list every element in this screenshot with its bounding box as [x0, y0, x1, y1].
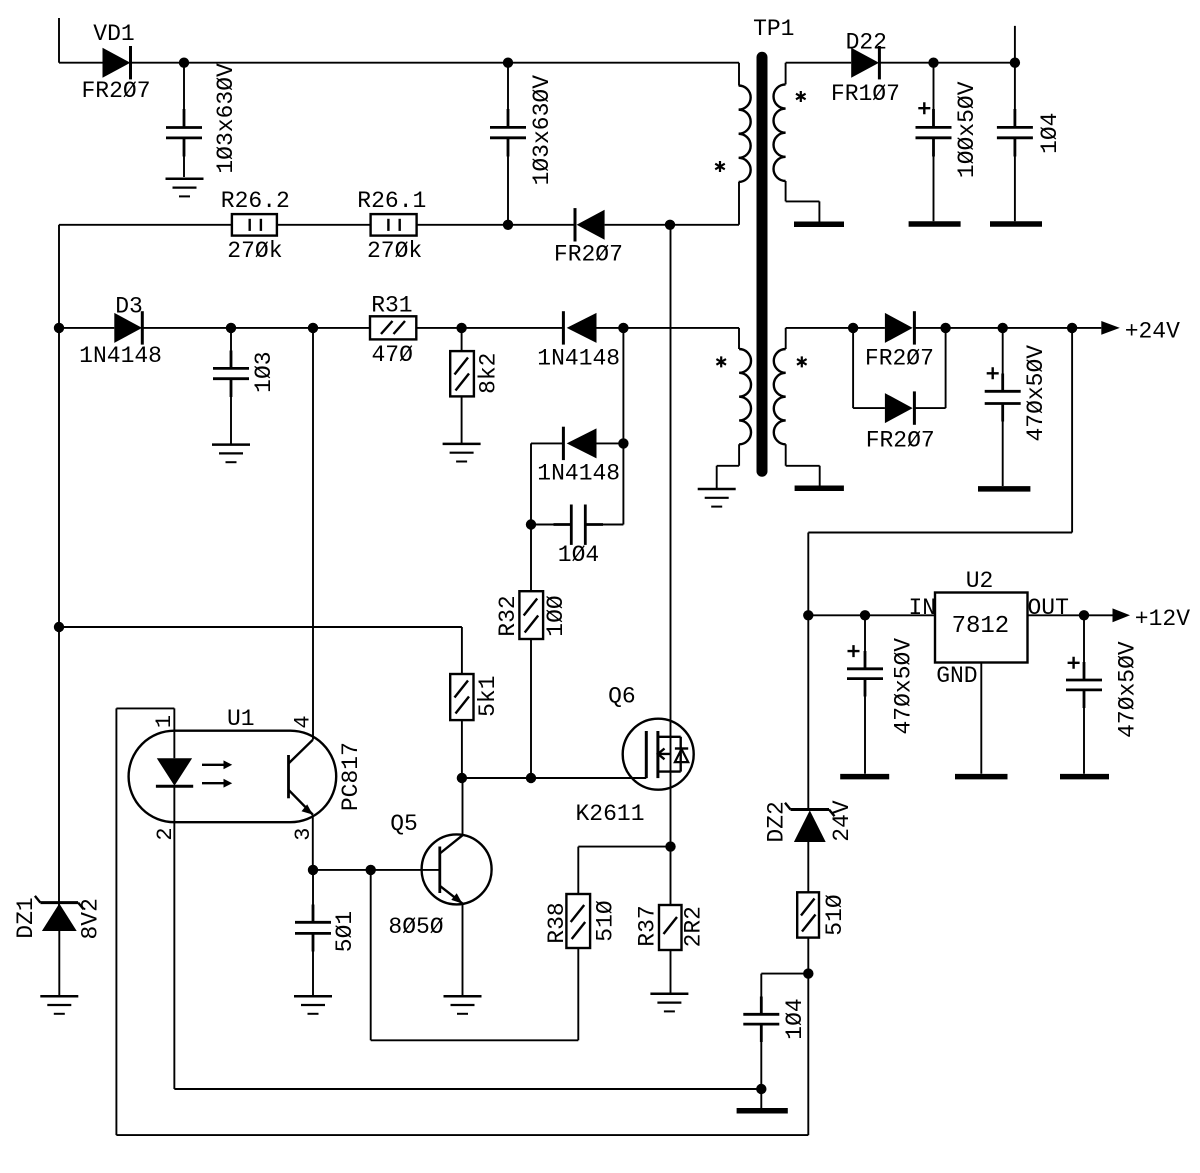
node pin3 junction: [308, 865, 318, 875]
wire D22 rail: [786, 26, 1015, 63]
resistor R37 2R2: [634, 847, 706, 994]
wire bias y627: [59, 627, 462, 674]
svg-text:47Øx5ØV: 47Øx5ØV: [1023, 345, 1049, 442]
svg-text:K2611: K2611: [575, 801, 644, 827]
node snubber junction rail C: [618, 323, 628, 333]
wire rail B: [59, 182, 739, 225]
ground 470x50V output: [978, 486, 1030, 492]
ground R37: [650, 994, 688, 1012]
node +12V feed junction: [1067, 323, 1077, 333]
node 8k2 junction: [456, 323, 466, 333]
svg-text:1Ø3x63ØV: 1Ø3x63ØV: [213, 63, 239, 174]
diode D22 FR107: [831, 30, 900, 107]
svg-text:27Øk: 27Øk: [367, 238, 422, 264]
svg-text:DZ2: DZ2: [763, 801, 789, 842]
svg-text:51Ø: 51Ø: [593, 900, 619, 942]
capacitor 103: [213, 328, 277, 444]
diode FR207 output 1: [865, 311, 934, 372]
node left bus rail C: [54, 323, 64, 333]
svg-text:4: 4: [290, 715, 315, 728]
svg-text:1Ø4: 1Ø4: [782, 998, 808, 1039]
ground 104 bottom: [737, 1108, 788, 1114]
ground 104 top: [990, 221, 1042, 227]
transformer TP1 secondary top winding: [774, 63, 820, 222]
node FR207 left junction: [848, 323, 858, 333]
node primary bottom junction: [665, 220, 675, 230]
node 470x50V junction: [998, 323, 1008, 333]
node B junction: [503, 58, 513, 68]
svg-text:1Ø4: 1Ø4: [1037, 112, 1063, 153]
node snubber diode junction: [618, 438, 628, 448]
wire IN rail: [808, 614, 935, 616]
ground 501: [294, 996, 332, 1014]
svg-text:7812: 7812: [952, 613, 1010, 640]
ground secondary top: [794, 221, 844, 227]
ground 100x50V: [909, 221, 961, 227]
transformer TP1 core: [753, 16, 794, 471]
svg-text:FR2Ø7: FR2Ø7: [81, 78, 150, 104]
svg-text:5k1: 5k1: [475, 675, 501, 716]
U1 phototransistor: [289, 740, 313, 815]
resistor 5k1: [450, 674, 501, 778]
wire pin4 riser: [312, 328, 314, 740]
polarity dot secondary top: [796, 91, 806, 102]
node Q6 source junction: [665, 841, 675, 851]
transformer TP1 primary bottom winding: [717, 349, 751, 488]
capacitor 501: [295, 870, 358, 996]
wire U1 pin1 route: [116, 708, 808, 1135]
svg-text:D3: D3: [115, 294, 143, 320]
regulator U2 7812: [908, 568, 1068, 689]
svg-text:1Ø3x63ØV: 1Ø3x63ØV: [529, 75, 555, 186]
zener DZ1 8V2: [13, 896, 103, 996]
svg-text:+12V: +12V: [1135, 606, 1190, 632]
ground Q5 emitter: [444, 996, 482, 1014]
ground 103: [212, 445, 250, 463]
svg-text:51Ø: 51Ø: [822, 894, 848, 936]
node 104 junction: [526, 519, 536, 529]
svg-text:IN: IN: [908, 595, 936, 621]
svg-text:1: 1: [152, 715, 177, 728]
resistor R31 470: [370, 293, 416, 368]
node R38 base junction: [366, 865, 376, 875]
node 104 bottom junction: [803, 968, 813, 978]
svg-text:PC817: PC817: [338, 742, 364, 811]
wire gate line y778: [462, 777, 646, 779]
svg-text:R32: R32: [495, 595, 521, 636]
wire ground stub: [760, 1089, 762, 1108]
node pin4 junction rail C: [308, 323, 318, 333]
wire left bus x59: [58, 225, 60, 903]
svg-text:8k2: 8k2: [476, 352, 502, 393]
svg-text:GND: GND: [936, 663, 977, 689]
svg-text:1ØØ: 1ØØ: [543, 595, 569, 637]
node left bus y627: [54, 622, 64, 632]
node 470x50V out junction: [1079, 610, 1089, 620]
wire DZ2 branch vertical: [807, 615, 809, 1135]
transformer TP1 primary top winding: [739, 86, 751, 182]
svg-text:R26.2: R26.2: [221, 188, 290, 214]
svg-text:1N4148: 1N4148: [537, 461, 620, 487]
svg-text:2R2: 2R2: [681, 906, 707, 947]
resistor 510 snubber: [797, 892, 848, 937]
wire capacitor lead stubs: [184, 109, 1084, 1042]
arrow +24V output: [1101, 319, 1180, 345]
diode 1N4148 snubber: [531, 427, 623, 525]
transformer TP1 secondary bottom winding: [774, 328, 820, 486]
node rail B cap junction: [503, 220, 513, 230]
diode VD1: [81, 21, 150, 104]
polarity dot secondary bottom: [797, 356, 807, 367]
resistor 8k2: [450, 328, 501, 444]
svg-text:1ØØx5ØV: 1ØØx5ØV: [954, 81, 980, 178]
ground U2: [955, 774, 1008, 780]
wire rail A primary top: [59, 63, 739, 86]
svg-text:U1: U1: [227, 706, 255, 732]
resistor R26.1 270k: [357, 188, 426, 264]
ground DZ1: [40, 996, 78, 1014]
svg-text:R31: R31: [371, 293, 412, 319]
svg-text:47Øx5ØV: 47Øx5ØV: [890, 638, 916, 735]
svg-text:VD1: VD1: [93, 21, 134, 47]
svg-text:FR2Ø7: FR2Ø7: [865, 346, 934, 372]
diode FR207 rail B: [554, 208, 623, 268]
capacitor 100x50V: [916, 63, 981, 222]
ground 470x50V in: [840, 774, 889, 780]
node 100x50V junction: [928, 58, 938, 68]
diode FR207 output 2: [866, 391, 935, 453]
wire source to R38: [578, 847, 670, 894]
transistor Q6 K2611: [575, 683, 693, 827]
wire top-left stub: [58, 18, 60, 63]
node R32 gate junction: [526, 773, 536, 783]
capacitor 104 bottom: [743, 974, 808, 1089]
resistor R32 100: [495, 525, 569, 779]
svg-text:FR2Ø7: FR2Ø7: [866, 428, 935, 454]
ground secondary bottom: [795, 485, 844, 491]
diode 1N4148 rail C: [537, 311, 620, 372]
wire base line y870: [313, 869, 440, 871]
capacitor 104 snubber: [531, 505, 623, 569]
svg-text:D22: D22: [846, 30, 887, 56]
wire rail C: [59, 328, 739, 349]
svg-text:R26.1: R26.1: [357, 188, 426, 214]
node 104 top junction: [1010, 58, 1020, 68]
ground primary bottom: [698, 489, 736, 507]
svg-text:1N4148: 1N4148: [537, 346, 620, 372]
svg-text:27Øk: 27Øk: [227, 238, 282, 264]
node A junction: [179, 58, 189, 68]
diode D3 1N4148: [79, 294, 162, 370]
svg-text:U2: U2: [966, 568, 994, 594]
node 103 junction: [226, 323, 236, 333]
capacitor C1 103x630V: [166, 63, 239, 177]
svg-text:47Øx5ØV: 47Øx5ØV: [1114, 641, 1140, 738]
svg-text:5Ø1: 5Ø1: [332, 911, 358, 952]
node 470x50V in junction: [860, 610, 870, 620]
U1 LED: [156, 758, 232, 787]
wire U1 pin2 route: [174, 786, 761, 1089]
svg-text:DZ1: DZ1: [13, 897, 39, 938]
resistor R26.2 270k: [221, 188, 290, 264]
capacitor 470x50V out: [1066, 615, 1140, 774]
wire U2 GND pin: [980, 663, 982, 774]
svg-text:47Ø: 47Ø: [371, 342, 413, 368]
svg-text:R37: R37: [634, 905, 660, 946]
wire Q6 drain-source vertical: [670, 225, 672, 847]
wire snubber riser: [622, 328, 624, 525]
polarity dot primary bottom: [716, 356, 726, 367]
wire pin3: [312, 815, 314, 870]
svg-text:8V2: 8V2: [78, 898, 104, 939]
arrow +12V output: [1113, 606, 1191, 632]
svg-text:TP1: TP1: [753, 16, 794, 42]
node 5k1 collector junction: [457, 773, 467, 783]
capacitor 470x50V in: [847, 615, 916, 774]
ground C1: [166, 179, 204, 197]
op-amp U1 PC817 body: [129, 706, 365, 822]
wire FR207 parallel loop: [853, 328, 946, 408]
wire +24V rail: [786, 327, 1102, 329]
capacitor 470x50V output: [985, 328, 1049, 486]
polarity dot primary top: [715, 161, 725, 172]
svg-text:1Ø4: 1Ø4: [558, 542, 599, 568]
node ground net junction: [756, 1084, 766, 1094]
svg-text:+24V: +24V: [1125, 319, 1180, 345]
wire +12V feed: [808, 328, 1072, 615]
svg-text:OUT: OUT: [1027, 595, 1068, 621]
svg-text:1Ø3: 1Ø3: [251, 351, 277, 392]
capacitor C2 103x630V: [490, 63, 555, 225]
svg-text:24V: 24V: [829, 800, 855, 842]
zener DZ2 24V: [763, 800, 854, 843]
svg-text:FR1Ø7: FR1Ø7: [831, 81, 900, 107]
transistor Q5 8050: [388, 778, 491, 996]
svg-text:FR2Ø7: FR2Ø7: [554, 242, 623, 268]
svg-text:8Ø5Ø: 8Ø5Ø: [388, 914, 443, 940]
svg-text:R38: R38: [544, 902, 570, 943]
wire OUT rail: [1028, 614, 1113, 616]
capacitor 104 top: [997, 63, 1063, 222]
node FR207 right junction: [940, 323, 950, 333]
svg-text:Q5: Q5: [390, 811, 418, 837]
ground 8k2: [443, 444, 481, 462]
node DZ2 feed junction: [803, 610, 813, 620]
svg-text:Q6: Q6: [608, 683, 636, 709]
resistor R38 510: [544, 894, 619, 948]
wire R38 return loop: [371, 870, 579, 1040]
svg-text:1N4148: 1N4148: [79, 343, 162, 369]
ground 470x50V out: [1060, 774, 1109, 780]
